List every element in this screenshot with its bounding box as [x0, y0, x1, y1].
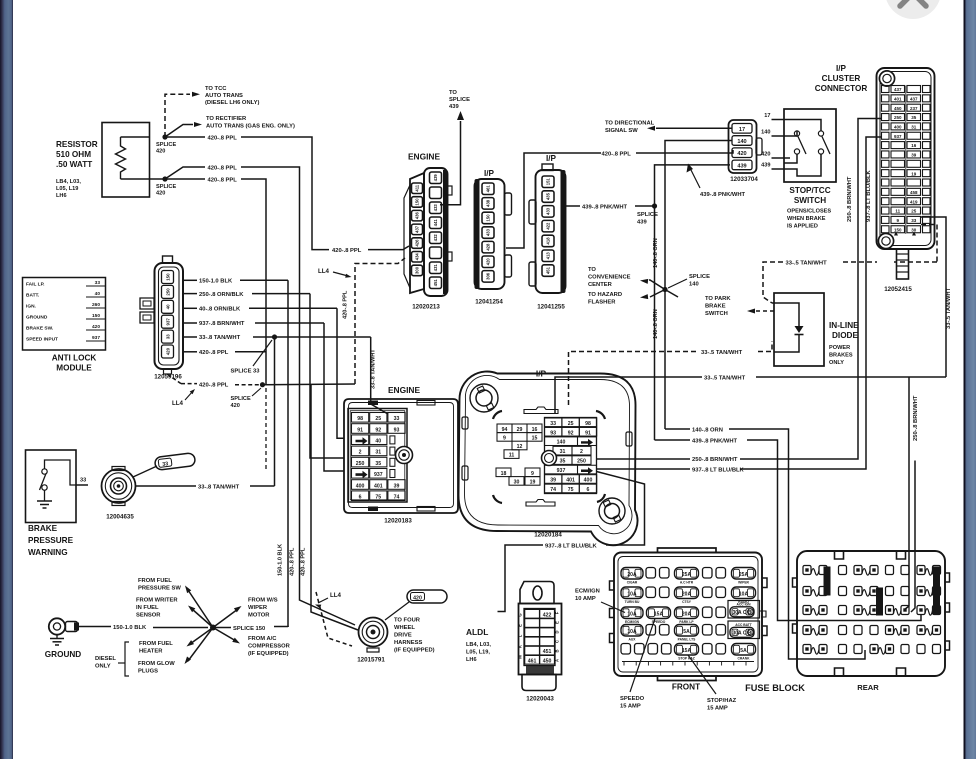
svg-text:AUTO TRANS: AUTO TRANS — [205, 93, 243, 99]
wire 439 PNK/WHT from 12041255 — [566, 205, 580, 207]
svg-text:SPLICE: SPLICE — [231, 396, 251, 402]
svg-text:439: 439 — [449, 104, 459, 110]
svg-text:20A: 20A — [682, 612, 692, 618]
svg-text:98: 98 — [357, 416, 363, 422]
svg-text:451: 451 — [543, 649, 552, 655]
front fuse row 4 — [621, 625, 643, 637]
I/P block corner arc details — [493, 411, 502, 419]
rear fuse black bars — [824, 567, 831, 596]
svg-text:937-.8 BRN/WHT: 937-.8 BRN/WHT — [199, 321, 245, 327]
svg-text:TO: TO — [588, 267, 596, 273]
wire 140-.8 ORN to rear — [665, 428, 690, 430]
svg-text:33-.5 TAN/WHT: 33-.5 TAN/WHT — [704, 376, 746, 382]
svg-text:M: M — [518, 655, 523, 659]
wire 420-.8 PPL from module connector — [183, 351, 197, 353]
engine block 12020183 outer body — [344, 399, 458, 513]
svg-text:150: 150 — [894, 227, 902, 232]
svg-text:SPEED INPUT: SPEED INPUT — [26, 337, 58, 343]
svg-text:434: 434 — [415, 253, 420, 261]
splice 420 upper junction dot — [162, 134, 167, 139]
svg-text:SENSOR: SENSOR — [136, 613, 161, 619]
svg-text:450: 450 — [543, 658, 552, 664]
svg-text:420-.8 PPL: 420-.8 PPL — [332, 248, 362, 254]
svg-text:937: 937 — [374, 472, 383, 478]
wire 140 ORN below splice 140 — [664, 290, 666, 430]
svg-text:IGN.: IGN. — [26, 304, 36, 310]
ALDL connector 12020043 top tab — [520, 582, 554, 604]
svg-text:(DIESEL LH6 ONLY): (DIESEL LH6 ONLY) — [205, 100, 260, 106]
svg-text:150-1.0 BLK: 150-1.0 BLK — [199, 279, 233, 285]
svg-text:510 OHM: 510 OHM — [56, 150, 91, 159]
svg-text:937: 937 — [92, 335, 100, 341]
brake pressure warning box — [26, 450, 77, 523]
I/P block bottom-right bolt lobe — [599, 498, 625, 524]
svg-text:35: 35 — [911, 115, 917, 120]
svg-text:12020183: 12020183 — [384, 518, 412, 525]
svg-text:POWER: POWER — [829, 345, 850, 351]
front fuse block top lip — [658, 548, 717, 553]
front fuse row 5 — [621, 644, 631, 655]
svg-text:MODULE: MODULE — [56, 364, 92, 373]
svg-text:LL4: LL4 — [172, 400, 184, 407]
wire 439 pin elbow down to splice 439 — [655, 165, 731, 206]
I/P block center ring — [542, 451, 557, 466]
anti lock module box — [23, 278, 106, 351]
svg-text:(IF EQUIPPED): (IF EQUIPPED) — [248, 651, 289, 657]
svg-text:LB4, L03,: LB4, L03, — [56, 179, 81, 185]
svg-text:15A: 15A — [682, 648, 692, 654]
engine block top/bottom slots — [368, 401, 378, 406]
wire 439 PNK/WHT down from splice 439 — [654, 206, 656, 440]
svg-text:937: 937 — [557, 468, 566, 474]
svg-text:31: 31 — [911, 125, 917, 130]
svg-text:420-.8 PPL: 420-.8 PPL — [343, 290, 349, 319]
svg-text:WHEN BRAKE: WHEN BRAKE — [787, 216, 826, 222]
in-line diode box — [774, 293, 824, 366]
svg-text:250-.8 BRN/WHT: 250-.8 BRN/WHT — [692, 457, 738, 463]
leader 439-.8 PNK/WHT to connector — [690, 168, 700, 188]
svg-text:I/P: I/P — [484, 169, 495, 178]
ground symbol stack — [56, 635, 58, 639]
svg-text:ECM/IGN: ECM/IGN — [575, 589, 600, 595]
wire 937-.8 LT BLU/BLK label middle — [597, 468, 691, 470]
svg-text:250: 250 — [166, 288, 171, 296]
svg-text:428: 428 — [486, 243, 491, 251]
svg-text:AUX: AUX — [629, 638, 637, 642]
page right blue bar — [964, 0, 976, 759]
svg-text:IN-LINE: IN-LINE — [829, 321, 859, 330]
svg-text:420: 420 — [156, 149, 165, 155]
svg-text:250: 250 — [577, 459, 586, 465]
wire FROM FUEL PRESSURE SW — [188, 590, 213, 628]
svg-text:F: F — [555, 611, 560, 614]
connector 12033704 body — [729, 120, 757, 173]
engine block pin grid — [352, 413, 406, 501]
svg-text:D: D — [555, 630, 560, 633]
dashed wire 33-.5 TAN/WHT cluster to diode — [921, 225, 937, 263]
svg-text:11: 11 — [509, 453, 515, 459]
svg-text:400: 400 — [356, 483, 365, 489]
wire TO DIRECTIONAL SIGNAL SW — [656, 127, 732, 129]
svg-text:ENGINE: ENGINE — [408, 152, 441, 162]
svg-text:439: 439 — [637, 220, 647, 226]
svg-text:FROM WRITER: FROM WRITER — [136, 598, 178, 604]
svg-text:10A: 10A — [627, 629, 637, 635]
I/P block 12020184 outer body — [459, 371, 638, 545]
svg-text:451: 451 — [433, 279, 438, 287]
svg-text:6: 6 — [359, 495, 362, 501]
brake pressure warning pin 33 stub — [76, 484, 88, 486]
svg-text:ACC IGN: ACC IGN — [737, 603, 752, 607]
wire 420 PPL branch to lower splice — [165, 178, 205, 180]
wire from splice 420 to LL4 dashed riser — [263, 383, 356, 386]
wire to rectifier auto trans — [165, 125, 193, 138]
svg-text:140-.8 ORN: 140-.8 ORN — [653, 309, 659, 339]
connector 12041255 body — [536, 170, 566, 293]
svg-text:150: 150 — [486, 214, 491, 222]
svg-text:401: 401 — [374, 483, 383, 489]
svg-text:420: 420 — [156, 191, 165, 197]
svg-text:433: 433 — [433, 204, 438, 212]
front fuse row 2 — [621, 587, 643, 599]
svg-text:STOP/HAZ: STOP/HAZ — [707, 698, 737, 704]
svg-text:ONLY: ONLY — [829, 360, 844, 366]
svg-text:450: 450 — [894, 106, 902, 111]
svg-text:LL4: LL4 — [330, 592, 342, 599]
svg-text:140: 140 — [737, 139, 746, 145]
svg-text:411: 411 — [415, 184, 420, 191]
svg-text:433: 433 — [546, 207, 551, 215]
svg-text:33-.5 TAN/WHT: 33-.5 TAN/WHT — [701, 350, 743, 356]
svg-text:PRESSURE SW: PRESSURE SW — [138, 586, 181, 592]
connector 12020213 body left half — [410, 173, 424, 293]
wire 33-.5 TAN/WHT cluster pin 30 down right side — [921, 217, 946, 377]
wire 33-.5 TAN/WHT horizontal to I/P 12020184 — [756, 376, 946, 378]
wire 33-.8 TAN/WHT from module connector — [183, 336, 197, 338]
ACC BATT breaker box — [728, 621, 760, 639]
svg-text:420-.8 PPL: 420-.8 PPL — [199, 350, 229, 356]
LL4 dashed riser 420 PPL — [355, 258, 405, 384]
svg-text:FRONT: FRONT — [672, 683, 700, 692]
svg-text:451: 451 — [546, 266, 551, 274]
svg-text:250: 250 — [356, 461, 365, 467]
svg-text:33-.5 TAN/WHT: 33-.5 TAN/WHT — [946, 287, 952, 329]
wire 937-.8 BRN/WHT from module connector — [183, 322, 197, 324]
connector 12041254 body — [475, 179, 505, 289]
svg-text:420: 420 — [413, 595, 422, 601]
wire TO SPLICE 439 from 12020213 — [440, 121, 461, 205]
svg-text:E: E — [555, 621, 560, 624]
svg-text:439: 439 — [761, 163, 770, 169]
label SPLICE 150 — [213, 627, 231, 629]
connector 12059196 pin 250 — [162, 285, 174, 298]
svg-text:30: 30 — [911, 227, 917, 232]
connector 12020213 side tabs — [448, 186, 453, 195]
sensor 12015791 rings — [359, 618, 388, 647]
svg-text:25: 25 — [911, 209, 917, 214]
svg-text:12004635: 12004635 — [106, 514, 134, 521]
svg-text:150-1.0 BLK: 150-1.0 BLK — [278, 544, 284, 576]
front fuse row 1 — [621, 568, 643, 580]
svg-text:12020213: 12020213 — [412, 304, 440, 311]
svg-text:WARNING: WARNING — [28, 548, 68, 557]
svg-text:25A: 25A — [739, 572, 749, 578]
svg-text:ENGINE: ENGINE — [388, 385, 421, 395]
svg-text:74: 74 — [394, 495, 400, 501]
svg-text:436: 436 — [415, 211, 420, 219]
svg-text:93: 93 — [394, 427, 400, 433]
svg-text:L: L — [518, 634, 523, 637]
wire 250-.8 BRN/WHT label middle — [597, 458, 691, 460]
svg-text:SPLICE: SPLICE — [449, 97, 470, 103]
svg-text:937-.8 LT BLU/BLK: 937-.8 LT BLU/BLK — [866, 169, 872, 222]
close button top right — [885, 0, 941, 19]
connector 12059196 pin 33 — [162, 330, 174, 343]
svg-text:140: 140 — [761, 130, 770, 136]
svg-text:419: 419 — [910, 199, 918, 204]
svg-text:94: 94 — [502, 427, 508, 433]
module-to-connector mating tabs — [140, 298, 154, 323]
svg-text:TURN BU: TURN BU — [625, 600, 640, 604]
svg-text:422: 422 — [543, 612, 552, 618]
ALDL connector 12020043 body — [519, 604, 562, 675]
svg-text:420-.8 PPL: 420-.8 PPL — [208, 178, 238, 184]
svg-text:K: K — [518, 645, 523, 648]
ACC IGN breaker box — [728, 601, 760, 619]
svg-text:DIODE: DIODE — [832, 331, 858, 340]
svg-text:98: 98 — [585, 421, 591, 427]
svg-text:10A: 10A — [627, 592, 637, 598]
svg-text:420: 420 — [486, 258, 491, 266]
svg-text:250-.8 BRN/WHT: 250-.8 BRN/WHT — [913, 395, 919, 441]
svg-text:937-.8 LT BLU/BLK: 937-.8 LT BLU/BLK — [545, 544, 598, 550]
svg-text:937: 937 — [166, 318, 171, 326]
wire 439-.8 PNK/WHT to rear — [655, 439, 691, 441]
svg-text:33: 33 — [80, 478, 86, 484]
wire 250 ORN/BLK vertical drop into engine block — [310, 294, 344, 458]
svg-text:439-.8 PNK/WHT: 439-.8 PNK/WHT — [582, 205, 628, 211]
svg-text:31: 31 — [560, 449, 566, 455]
cluster tail — [897, 249, 909, 279]
svg-text:400: 400 — [894, 125, 902, 130]
svg-text:SPLICE: SPLICE — [689, 274, 710, 280]
svg-text:FROM GLOW: FROM GLOW — [138, 661, 175, 667]
svg-text:15: 15 — [532, 435, 538, 441]
svg-text:439: 439 — [433, 174, 438, 182]
svg-text:92: 92 — [375, 427, 381, 433]
wire 150-1.0 BLK vertical drop — [287, 280, 289, 627]
svg-text:426: 426 — [415, 239, 420, 247]
svg-text:SWITCH: SWITCH — [705, 311, 728, 317]
brake pressure warning ground symbol — [37, 500, 52, 502]
svg-text:18: 18 — [501, 471, 507, 477]
svg-text:G: G — [518, 613, 523, 616]
svg-text:400: 400 — [584, 478, 593, 484]
svg-text:29: 29 — [517, 427, 523, 433]
connector 12059196 pin 937 — [162, 315, 174, 328]
wire 140 pin elbow down — [665, 141, 732, 290]
connector 12033704 pin 439 — [732, 160, 752, 170]
svg-text:PRESSURE: PRESSURE — [28, 536, 74, 545]
wire 420 PPL top run to 12033704 — [506, 153, 601, 248]
connector 12059196 pin 420 — [162, 345, 174, 358]
svg-text:MOTOR: MOTOR — [248, 613, 270, 619]
svg-text:IS APPLIED: IS APPLIED — [787, 224, 818, 230]
connector 12020213 body right half — [424, 168, 448, 296]
svg-text:140: 140 — [689, 282, 699, 288]
svg-text:15 AMP: 15 AMP — [620, 704, 641, 710]
connector 12059196 pin 40 — [162, 300, 174, 313]
svg-text:5A: 5A — [740, 648, 747, 654]
rear fuse block bottom notches — [835, 668, 906, 676]
svg-text:420-.8 PPL: 420-.8 PPL — [602, 152, 632, 158]
svg-text:17: 17 — [764, 113, 770, 119]
svg-text:40: 40 — [375, 439, 381, 445]
svg-text:GROUND: GROUND — [45, 650, 81, 659]
svg-text:FLASHER: FLASHER — [588, 300, 616, 306]
svg-text:420-.8 PPL: 420-.8 PPL — [290, 547, 296, 576]
svg-text:C: C — [555, 640, 560, 643]
svg-text:439: 439 — [737, 163, 746, 169]
wire 150-1.0 BLK from module connector — [183, 279, 197, 281]
connector 12033704 pin 140 — [732, 136, 752, 146]
diode symbol — [772, 303, 799, 326]
ACC IGN hook wire — [760, 611, 767, 617]
wire resistor top lead to splice 420 (upper) — [121, 136, 150, 138]
svg-text:16: 16 — [532, 427, 538, 433]
front fuse block side notches — [610, 581, 615, 590]
svg-text:CTSY: CTSY — [682, 600, 692, 604]
wire 420 PPL branch (gas) — [165, 167, 205, 179]
svg-text:TO DIRECTIONAL: TO DIRECTIONAL — [605, 121, 655, 127]
wire 420b drop to 12015791 — [311, 385, 358, 630]
cluster pin grid — [882, 86, 931, 233]
sensor 12004635 circuit tag 33 — [154, 453, 195, 471]
svg-text:150: 150 — [415, 198, 420, 206]
svg-text:10A: 10A — [739, 592, 749, 598]
connector 12033704 pin 17 — [732, 124, 752, 134]
svg-text:STOP/TCC: STOP/TCC — [789, 186, 830, 195]
cluster bolt ring bottom — [878, 233, 893, 248]
svg-text:12020184: 12020184 — [534, 532, 562, 539]
front fuse row 3 — [621, 607, 643, 619]
svg-text:75: 75 — [375, 495, 381, 501]
svg-text:TO RECTIFIER: TO RECTIFIER — [206, 116, 247, 122]
svg-text:E: E — [518, 624, 523, 627]
svg-text:FAIL LP.: FAIL LP. — [26, 282, 45, 288]
wire 33 TAN/WHT down to sensor 12004635 — [274, 337, 276, 486]
svg-text:150: 150 — [92, 313, 100, 319]
svg-text:33: 33 — [95, 280, 101, 286]
wire 250 BRN/WHT cluster pin down — [740, 119, 881, 460]
front fuse block outer body — [614, 553, 762, 677]
svg-text:458: 458 — [910, 190, 918, 195]
wire 250 BRN/WHT drop to rear fuse block — [904, 377, 909, 610]
svg-text:40-.8 ORN/BLK: 40-.8 ORN/BLK — [199, 307, 241, 313]
svg-text:12015791: 12015791 — [357, 657, 385, 664]
svg-text:WIPER: WIPER — [248, 605, 268, 611]
svg-text:75: 75 — [568, 487, 574, 493]
connector 12059196 body — [155, 263, 184, 369]
svg-text:140-.8 ORN: 140-.8 ORN — [653, 238, 659, 268]
svg-text:306: 306 — [486, 272, 491, 280]
wire 40-.8 ORN/BLK from module connector — [183, 307, 197, 309]
svg-text:HEATER: HEATER — [139, 649, 163, 655]
dashed wire to TCC auto trans — [165, 94, 190, 137]
svg-text:12: 12 — [517, 444, 523, 450]
svg-text:(IF EQUIPPED): (IF EQUIPPED) — [394, 648, 435, 654]
svg-text:SPLICE 33: SPLICE 33 — [231, 369, 261, 375]
page left blue bar — [0, 0, 13, 759]
svg-text:431: 431 — [433, 264, 438, 272]
svg-text:ANTI LOCK: ANTI LOCK — [52, 354, 97, 363]
svg-text:FROM A/C: FROM A/C — [248, 636, 277, 642]
svg-text:SIGNAL SW: SIGNAL SW — [605, 128, 638, 134]
svg-text:BRAKE SW.: BRAKE SW. — [26, 326, 53, 332]
svg-text:12041254: 12041254 — [475, 299, 503, 306]
I/P block top-left bolt lobe — [470, 384, 498, 412]
wire FROM A/C COMPRESSOR — [213, 628, 236, 642]
svg-text:92: 92 — [568, 430, 574, 436]
svg-text:HARNESS: HARNESS — [394, 640, 422, 646]
svg-text:FROM FUEL: FROM FUEL — [138, 578, 172, 584]
svg-text:432: 432 — [433, 234, 438, 242]
svg-text:300: 300 — [415, 266, 420, 274]
wire 33-.8 TAN/WHT from sensor — [136, 485, 197, 487]
svg-text:19: 19 — [530, 479, 536, 485]
svg-text:TO HAZARD: TO HAZARD — [588, 292, 622, 298]
svg-text:ACC BATT: ACC BATT — [735, 623, 752, 627]
splice 140 junction — [662, 287, 667, 292]
svg-text:461: 461 — [528, 658, 537, 664]
svg-text:40: 40 — [95, 291, 101, 297]
svg-text:SPLICE: SPLICE — [156, 142, 176, 148]
stop/tcc switch internal contacts — [784, 120, 821, 131]
svg-text:A.C HTR: A.C HTR — [680, 581, 694, 585]
connector 12041254 pin column — [482, 183, 494, 195]
svg-text:BRAKE: BRAKE — [705, 304, 726, 310]
svg-text:.50 WATT: .50 WATT — [56, 160, 92, 169]
svg-text:DIESEL: DIESEL — [95, 656, 116, 662]
svg-text:12052415: 12052415 — [884, 286, 912, 293]
I/P block lower-left pin group — [496, 468, 540, 485]
dashed 420 stub below splice — [265, 388, 267, 472]
svg-text:418: 418 — [546, 237, 551, 245]
front fuse block bottom lip — [658, 676, 717, 681]
svg-text:CLUSTER: CLUSTER — [822, 74, 861, 83]
svg-text:437: 437 — [910, 96, 918, 101]
svg-text:10A: 10A — [627, 612, 637, 618]
svg-text:TO: TO — [449, 90, 457, 96]
svg-text:20A: 20A — [627, 572, 637, 578]
wire FROM FUEL HEATER — [190, 628, 213, 645]
svg-text:25: 25 — [375, 416, 381, 422]
svg-text:RESISTOR: RESISTOR — [56, 140, 98, 149]
svg-text:39: 39 — [911, 153, 917, 158]
circuit tag 420 — [407, 590, 447, 603]
connector 12020213 right pin column — [430, 172, 442, 184]
svg-text:BRAKE: BRAKE — [28, 524, 58, 533]
svg-text:WHEEL: WHEEL — [394, 625, 415, 631]
svg-text:15A: 15A — [654, 612, 664, 618]
svg-text:SWITCH: SWITCH — [794, 196, 826, 205]
wire FROM GLOW PLUGS — [188, 628, 213, 662]
wire 937-.8 LT BLU/BLK bottom run — [606, 532, 645, 546]
svg-text:ALDL: ALDL — [466, 627, 488, 637]
svg-text:2: 2 — [359, 450, 362, 456]
stop/tcc switch box — [784, 109, 836, 182]
svg-text:I/P: I/P — [546, 154, 557, 163]
